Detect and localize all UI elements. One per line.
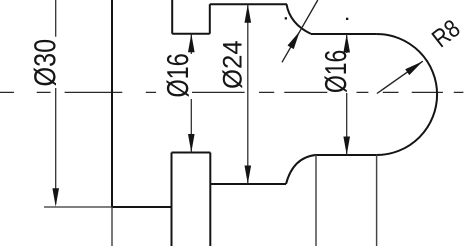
part outline shoulder up bbox=[209, 4, 211, 34]
dimension line D16 right lower bbox=[346, 93, 348, 155]
part outline right neck bottom edge bbox=[316, 154, 377, 156]
leader line fillet radius bbox=[282, 0, 318, 62]
dimension line D24 bbox=[247, 4, 249, 184]
dimension line D16 left lower bbox=[190, 99, 192, 153]
extension line below fillet end bbox=[315, 155, 317, 246]
ball end arc bbox=[377, 34, 437, 155]
part outline mid cylinder bottom edge bbox=[210, 183, 286, 185]
dimension line D16 left upper bbox=[190, 34, 192, 54]
dimension line D30 upper segment bbox=[55, 0, 57, 37]
dimension line D30 lower segment bbox=[55, 88, 57, 204]
dimension line D16 right upper bbox=[346, 34, 348, 53]
arrowhead D24 down bbox=[245, 166, 252, 185]
label R8 bbox=[431, 18, 461, 47]
center dot right bbox=[346, 18, 348, 20]
arrowhead fillet radius bbox=[288, 31, 300, 49]
part outline neck top edge bbox=[172, 33, 210, 35]
extension line below left face bbox=[111, 207, 113, 246]
arrowhead D30 down bbox=[52, 188, 59, 207]
part outline left face bbox=[111, 0, 113, 207]
center dot fillet bbox=[285, 17, 287, 19]
label D16 right bbox=[324, 51, 346, 92]
leader line R8 bbox=[377, 61, 423, 93]
extension line flange bottom bbox=[44, 206, 112, 208]
arrowhead D16 right up bbox=[343, 34, 350, 53]
label D30 bbox=[34, 40, 56, 86]
fillet bottom bbox=[286, 155, 316, 184]
fillet top bbox=[287, 4, 312, 34]
arrowhead D16 left up bbox=[188, 34, 195, 53]
part outline bottom edge of flange bbox=[112, 206, 172, 208]
part outline flange right face lower bbox=[171, 153, 173, 247]
centerline axis bbox=[0, 91, 463, 93]
label D24 bbox=[222, 41, 242, 88]
part outline right neck top edge bbox=[311, 33, 377, 35]
arrowhead D16 left down bbox=[188, 134, 195, 153]
label D16 left bbox=[166, 54, 188, 96]
arrowhead R8 bbox=[405, 61, 423, 75]
extension line below ball tangent bbox=[376, 155, 378, 246]
part outline mid cylinder top edge bbox=[210, 3, 287, 5]
arrowhead D16 right down bbox=[343, 137, 350, 156]
part outline shoulder right of neck lower bbox=[209, 153, 211, 247]
arrowhead D24 up bbox=[245, 4, 252, 23]
part outline right face of flange upper bbox=[171, 0, 173, 34]
part outline neck bottom edge bbox=[172, 152, 211, 154]
